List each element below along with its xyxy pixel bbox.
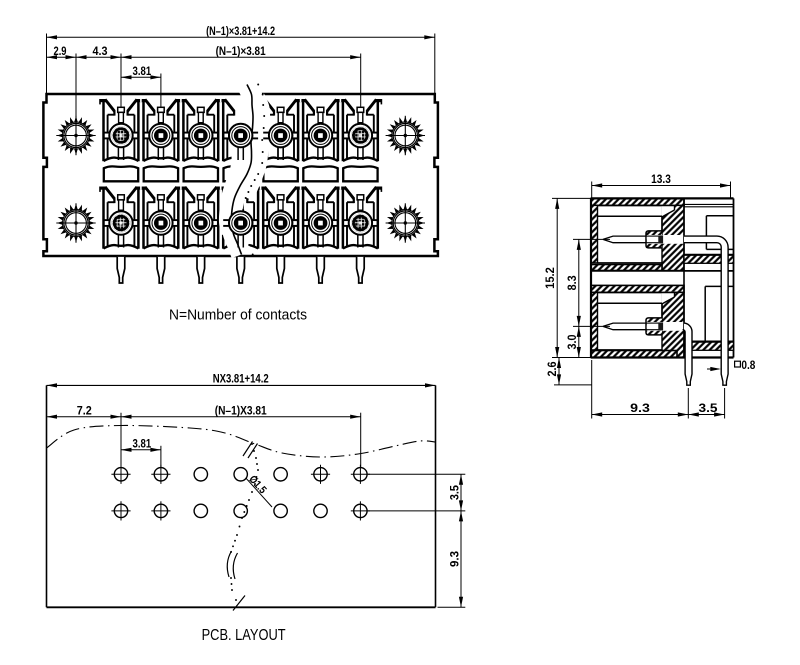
connector body outline (front view) (43, 94, 438, 256)
dimension 3.81 pitch (121, 65, 161, 108)
dimension 7.2 / (N-1)X3.81 (47, 404, 361, 467)
contact cell row2 pos5 (263, 187, 298, 249)
break wavy line solid (231, 85, 253, 255)
contact cell row1 pos4 (223, 99, 258, 161)
svg-text:9.3: 9.3 (448, 550, 461, 567)
male pin contacts (side view) (603, 235, 663, 330)
contact cell row1 pos3 (183, 99, 218, 161)
svg-text:N=Number of contacts: N=Number of contacts (169, 306, 307, 323)
contact cell row1 pos2 (143, 99, 178, 161)
svg-text:4.3: 4.3 (93, 45, 109, 58)
contact cell row2 pos7 (343, 187, 378, 249)
mounting hole boss bottom-left (serrated) (56, 203, 95, 242)
svg-text:NX3.81+14.2: NX3.81+14.2 (213, 373, 269, 386)
contact cell row2 pos1 (104, 187, 139, 249)
bent pin from row2 (near pin) (683, 323, 692, 385)
svg-text:(N–1)×3.81+14.2: (N–1)×3.81+14.2 (206, 25, 275, 38)
dimension 2.6 (546, 358, 592, 385)
cavity white carves (598, 205, 686, 350)
contact cell row1 pos6 (303, 99, 338, 161)
contact cell row1 pos5 (263, 99, 298, 161)
flange upper hatched strip (684, 255, 734, 263)
svg-text:0.8: 0.8 (741, 359, 755, 372)
mounting hole boss top-left (serrated) (56, 116, 95, 155)
side view hatched housing (591, 198, 684, 357)
svg-text:3.81: 3.81 (133, 65, 152, 78)
svg-text:7.2: 7.2 (77, 404, 92, 417)
contact cell row1 pos7 (343, 99, 378, 161)
phantom outline curve across board (47, 425, 436, 457)
contact cell row2 pos3 (183, 187, 218, 249)
flange lower hatched strip (684, 342, 734, 351)
PCB board outline (47, 385, 436, 607)
dimension 3.0 (566, 326, 581, 357)
contact cell row2 pos4 (223, 187, 258, 249)
middle latch boxes between rows (104, 166, 378, 181)
board break marks (227, 442, 259, 611)
dimension 3.81 (PCB) (121, 437, 161, 467)
dimension 15.2 (544, 198, 591, 357)
mounting hole boss top-right (serrated) (386, 116, 425, 155)
dimension 13.3 (592, 173, 731, 198)
contact cell row1 pos1 (104, 99, 139, 161)
svg-text:3.0: 3.0 (566, 335, 579, 350)
svg-text:15.2: 15.2 (544, 267, 557, 289)
svg-text:8.3: 8.3 (566, 275, 579, 291)
square pin size 0.8 callout (707, 359, 756, 372)
contact cell row2 pos2 (143, 187, 178, 249)
dimension (N-1)x3.81+14.2 (47, 25, 435, 94)
svg-text:3.81: 3.81 (133, 437, 152, 450)
svg-text:9.3: 9.3 (630, 402, 650, 415)
flange upper lock pocket (706, 216, 733, 250)
svg-text:(N–1)×3.81: (N–1)×3.81 (216, 45, 266, 58)
svg-text:3.5: 3.5 (448, 485, 461, 501)
side view body outline (591, 198, 734, 357)
svg-text:PCB. LAYOUT: PCB. LAYOUT (202, 627, 286, 644)
mounting hole boss bottom-right (serrated) (386, 203, 425, 242)
dimension 2.9 / 4.3 / (N-1)x3.81 (47, 45, 361, 116)
contact cell row2 pos6 (303, 187, 338, 249)
dimension 8.3 (566, 239, 610, 326)
svg-text:3.5: 3.5 (699, 402, 719, 415)
solder pins below body (front view) (117, 257, 364, 283)
collar bars between cells (100, 184, 382, 192)
PCB holes (111, 465, 370, 521)
svg-text:2.6: 2.6 (546, 361, 559, 377)
dimension 3.5 / 9.3 (PCB right) (368, 474, 465, 607)
dimension NX3.81+14.2 (top edge) (47, 373, 436, 388)
dimension 9.3 and 3.5 (side bottom) (592, 360, 725, 419)
collar bars between cells (100, 96, 382, 104)
svg-text:13.3: 13.3 (651, 173, 671, 186)
hole diameter callout 1.5 (246, 473, 272, 507)
break line through body (variable length) (225, 85, 263, 255)
break wavy line dotted (242, 84, 266, 256)
contacts redrawn over break (223, 124, 298, 248)
flange lower lock pocket (705, 286, 733, 341)
bent pin from row1 (far pin) (684, 236, 728, 385)
svg-text:2.9: 2.9 (54, 45, 67, 58)
svg-text:(N–1)X3.81: (N–1)X3.81 (215, 404, 267, 417)
